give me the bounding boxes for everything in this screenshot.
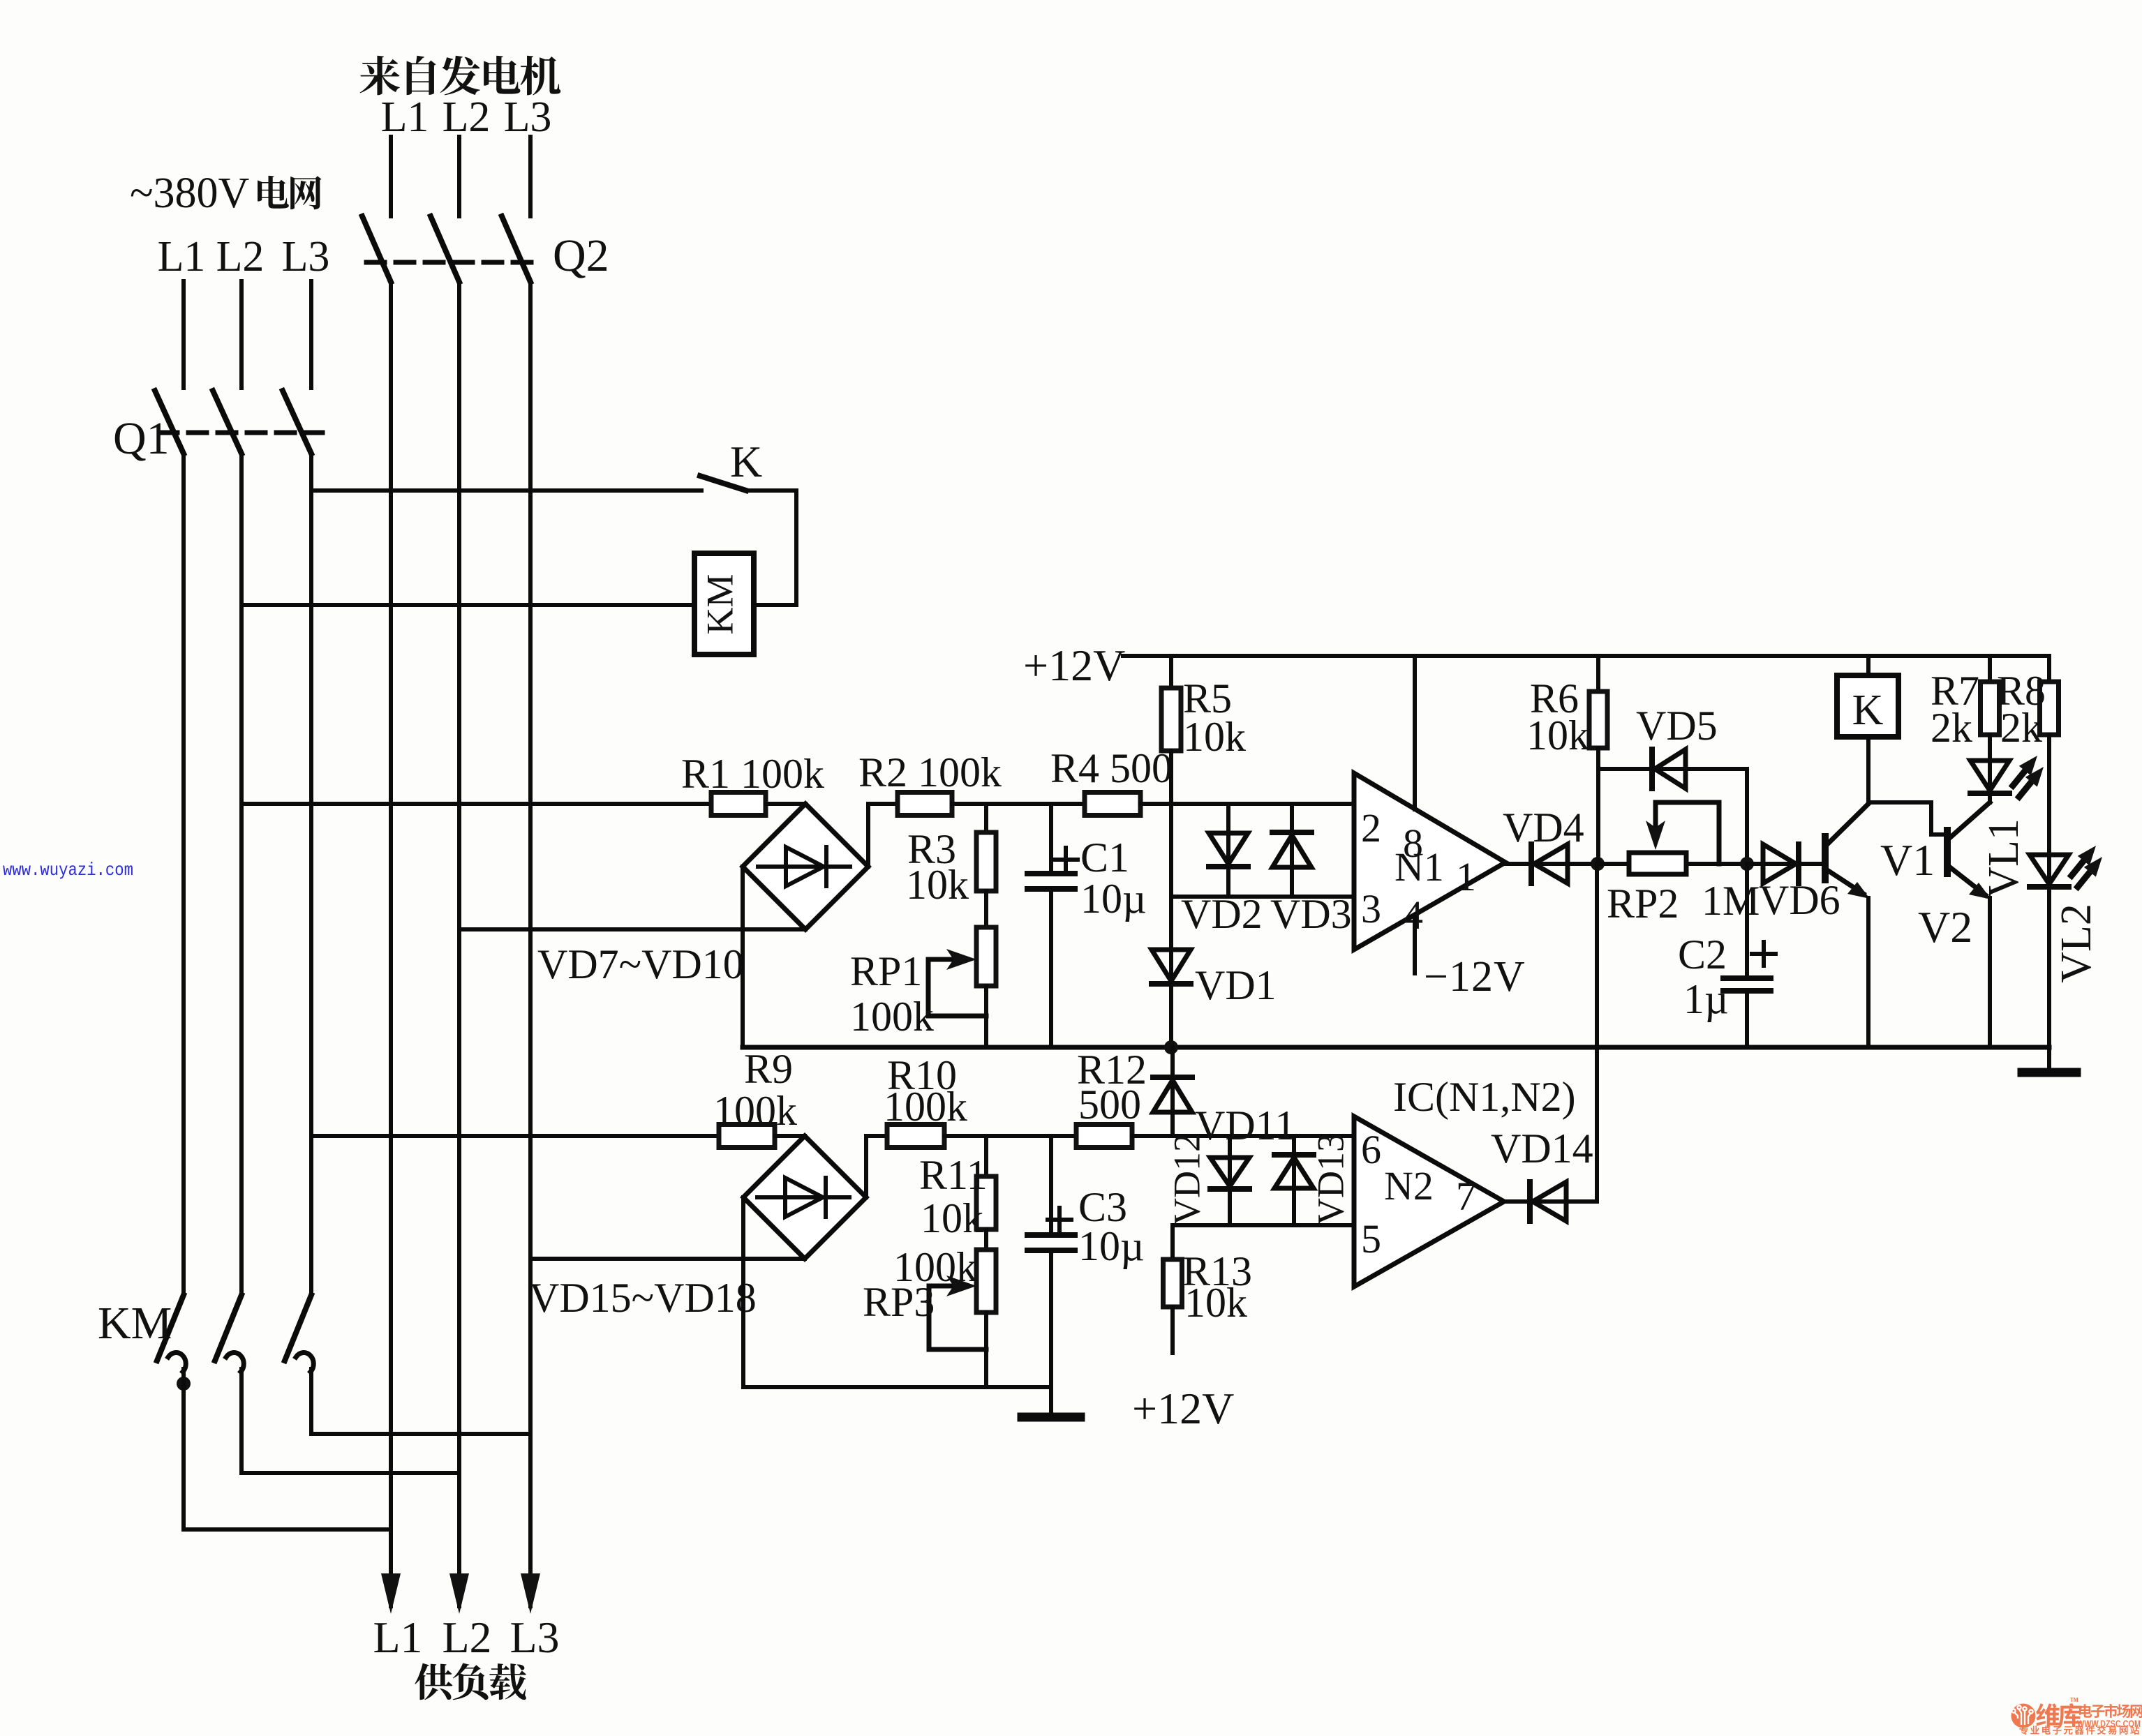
resistor R8 [2040,682,2059,735]
label R9 100k [713,1088,797,1134]
switch K label [730,437,762,486]
label VD14 [1491,1125,1593,1172]
wire R5 to node [1169,751,1173,804]
diode VD4 [1505,862,1531,866]
ground symbol lower [1022,1413,1080,1422]
label ~380V grid 电网 [130,170,322,217]
wire bridge2 right to R10 [864,1136,868,1197]
label RP1 [850,948,922,994]
relay coil K text [1852,687,1884,734]
label RP1 100k [850,994,934,1040]
contactor KM main contact 1 blade [157,1295,184,1361]
svg-text:10k: 10k [1526,712,1589,758]
label R12 [1077,1047,1147,1093]
switch Q2 blade 2 [431,216,459,282]
label +12V lower [1132,1384,1234,1433]
watermark 专业电子元器件交易网站 [2019,1726,2139,1735]
svg-text:R4 500: R4 500 [1050,745,1173,791]
svg-text:10k: 10k [1184,1280,1247,1326]
junction dot below KM contact 1 [177,1377,191,1391]
wire +12V rail [1123,654,2049,658]
wire grid L3 to switch K [311,488,701,493]
label R8 [1997,668,2046,714]
switch Q1 label [113,413,170,464]
node labels grid L1 L2 L3 [158,233,330,280]
svg-text:RP3: RP3 [863,1279,935,1325]
diode VD2 [1226,804,1230,833]
label R4 500 [1050,745,1173,791]
label V1 [1880,835,1935,885]
potentiometer RP2 wiper strap [1656,800,1719,805]
wire bridge2 left to ground [741,1197,745,1387]
bridge rectifier VD7~VD10 body [743,804,868,929]
label IC(N1,N2) [1393,1074,1576,1120]
svg-text:VD2: VD2 [1181,891,1263,937]
wire V1 collector to V2 base [1868,800,1931,805]
label R13 [1182,1248,1252,1294]
wire R1 to bridge top [766,802,805,806]
label VD4 [1503,805,1584,851]
load output arrow L2 [449,1573,469,1614]
wire rail to R5 [1169,656,1173,688]
label R2 100k [858,749,1002,795]
resistor R2 [898,793,952,816]
bridge rectifier VD15~VD18 inner diode [757,1178,849,1217]
svg-text:KM: KM [98,1298,172,1349]
wire R6 column to VD5 [1598,767,1650,771]
contactor KM main contact 3 blade [285,1295,311,1361]
wire R8 to VL2 [2047,735,2051,855]
switch Q2 linkage dashed [366,260,541,265]
label V2 [1918,902,1972,952]
svg-text:V1: V1 [1880,835,1935,885]
label R6 [1530,675,1579,721]
svg-text:TM: TM [2070,1697,2078,1703]
resistor R11 column tap [984,1136,988,1176]
svg-text:10k: 10k [921,1195,983,1241]
wire N1 pin4 to -12V [1413,915,1417,973]
potentiometer RP1 wiper arrow [928,957,967,962]
svg-text:R1 100k: R1 100k [681,751,824,797]
diode VD13 [1292,1136,1296,1158]
contactor KM label [98,1298,172,1349]
svg-text:L1: L1 [381,93,429,141]
svg-text:K: K [730,437,762,486]
svg-text:VL2: VL2 [2053,904,2100,983]
label +12V rail [1023,641,1125,690]
wire pin3 input [1171,895,1354,899]
label R7 2k [1931,705,1972,751]
svg-text:5: 5 [1361,1216,1381,1262]
ground stub lower [1049,1387,1053,1414]
diode VD3 [1290,804,1294,835]
capacitor C1 column tap [1049,804,1053,874]
load output arrow L1 [381,1573,401,1614]
svg-text:RP1: RP1 [850,948,922,994]
LED VL1 [1988,735,1992,761]
wire VD4 to node A [1568,862,1596,866]
contactor KM main contact 2 blade [215,1295,241,1361]
svg-text:R9: R9 [744,1046,793,1092]
resistor R13 tap [1170,1225,1175,1259]
label -12V [1424,953,1526,1001]
wire N2 pin5 [1173,1223,1354,1227]
wire grid L2 to R1 [241,802,711,806]
transistor V2 [1944,830,1951,874]
wire RP3 to ground wire [984,1312,988,1387]
diode VD5 [1648,767,1690,771]
svg-text:VD11: VD11 [1195,1102,1295,1148]
svg-text:N1: N1 [1394,844,1444,890]
wire gen L2 to bridge bottom [459,927,805,931]
junction dot bus VD1/VD11 [1164,1040,1178,1054]
wire rail to R6 [1596,656,1600,691]
resistor R11 [976,1176,996,1229]
svg-text:2k: 2k [2000,705,2042,751]
svg-text:VD7~VD10: VD7~VD10 [537,941,744,987]
resistor R9 [719,1125,775,1148]
label C3 10µ [1078,1223,1145,1269]
ground symbol right [2022,1068,2076,1077]
wire R2 to R4 [952,802,1085,806]
resistor R13 [1163,1259,1182,1307]
label R8 2k [2000,705,2042,751]
svg-text:Q2: Q2 [553,230,609,281]
capacitor C1 polarity + [1054,858,1078,862]
label VL2 rotated [2053,904,2100,983]
capacitor C2 polarity + [1752,952,1776,956]
wire generator L3 stub [528,137,533,216]
node labels generator L1 L2 L3 [381,93,552,141]
capacitor C3 polarity + [1048,1218,1071,1222]
contactor KM main contact 1 hook [168,1353,186,1372]
label R5 10k [1183,714,1246,760]
wire R3 to RP1 [984,891,988,927]
wire grid L3 to R9 [311,1134,719,1138]
wire grid L3 stub [309,281,313,388]
svg-text:L1: L1 [158,233,206,280]
wire L3 to load row [309,1369,313,1434]
wire C1 to bus [1049,889,1053,1047]
load output arrow L3 [521,1573,540,1614]
wire RP1 to bus [984,986,988,1047]
wire R12 to N2 pin6 [1132,1134,1354,1138]
contactor KM main contact 3 hook [296,1353,313,1372]
svg-text:100k: 100k [713,1088,797,1134]
svg-text:VD12: VD12 [1166,1133,1207,1225]
svg-text:500: 500 [1078,1082,1141,1128]
wire L1 to load row [181,1369,186,1529]
potentiometer RP2 wiper arrow [1653,802,1658,840]
label C1 10µ [1080,876,1147,922]
resistor R3 column tap [984,804,988,832]
wire grid L2 stub [239,281,244,388]
wire rail to relay K [1866,656,1870,675]
svg-text:L1: L1 [373,1612,422,1662]
wire L2 to load row [239,1369,244,1473]
wire gen L3 to bridge2 bottom [530,1257,805,1261]
svg-text:K: K [1852,687,1884,734]
svg-text:IC(N1,N2): IC(N1,N2) [1393,1074,1576,1120]
bridge rectifier VD7~VD10 inner diode [758,847,850,886]
svg-text:10µ: 10µ [1078,1223,1145,1269]
resistor R4 [1085,793,1140,816]
wire node to pin3 tap [1169,804,1173,897]
svg-text:+12V: +12V [1132,1384,1234,1433]
label VD3 [1270,891,1352,937]
resistor R6 [1589,691,1607,748]
label RP3 100k [893,1244,977,1290]
svg-text:www.wuyazi.com: www.wuyazi.com [3,860,133,881]
svg-text:VD14: VD14 [1491,1125,1593,1172]
label C1 [1080,835,1129,881]
label VD6 [1759,877,1840,923]
wire grid L1 vertical [181,454,186,1295]
svg-text:VD1: VD1 [1195,962,1277,1008]
label R10 [887,1052,957,1098]
label VD11 [1195,1102,1295,1148]
switch Q1 blade 2 [213,391,241,454]
capacitor C2 column [1745,864,1749,978]
diode VD1 [1169,897,1173,950]
svg-text:L3: L3 [510,1612,559,1662]
wire grid L2 vertical [239,454,244,1295]
wire V1 emitter to bus [1866,898,1870,1047]
label VL1 rotated [1980,818,2028,898]
label R11 10k [921,1195,983,1241]
label R6 10k [1526,712,1589,758]
svg-text:VD6: VD6 [1759,877,1840,923]
wire VD5 to node B [1686,767,1747,771]
svg-text:KM: KM [699,574,741,634]
svg-text:VD4: VD4 [1503,805,1584,851]
resistor R7 [1981,682,2000,735]
svg-text:Q1: Q1 [113,413,170,464]
wire RP2 to node B [1686,862,1747,866]
svg-text:VD5: VD5 [1636,703,1718,749]
svg-text:L2: L2 [442,93,491,141]
contactor KM main contact 2 hook [226,1353,244,1372]
svg-text:1µ: 1µ [1683,976,1729,1022]
potentiometer RP3 wiper strap [927,1286,932,1349]
svg-text:L2: L2 [442,1612,491,1662]
wire C2 to bus [1745,991,1749,1047]
svg-text:6: 6 [1361,1127,1381,1172]
wire R11 to RP3 [984,1229,988,1250]
svg-text:1M: 1M [1702,878,1760,924]
wire R13 to +12V stub [1170,1307,1175,1353]
capacitor C1 plates [1027,871,1075,876]
wire R9 to bridge2 top [775,1134,805,1138]
svg-text:L2: L2 [216,233,265,280]
op-amp N2 pin labels [1361,1127,1476,1262]
wire VL2 to bus [2047,887,2051,1047]
svg-text:R2 100k: R2 100k [858,749,1002,795]
label R12 500 [1078,1082,1141,1128]
wire main ground bus [743,1045,2049,1050]
diode VD12 [1228,1136,1232,1158]
svg-text:100k: 100k [884,1084,967,1130]
label R1 100k [681,751,824,797]
resistor R12 [1076,1125,1132,1148]
label C3 [1078,1184,1127,1230]
svg-text:1: 1 [1456,854,1476,899]
svg-text:C2: C2 [1678,931,1727,978]
resistor R10 [887,1125,944,1148]
bridge rectifier VD15~VD18 body [743,1136,866,1259]
resistor R1 [711,793,766,816]
capacitor C3 column tap [1049,1136,1053,1235]
potentiometer RP1 wiper strap [926,959,931,1016]
contactor coil KM text [699,574,741,634]
potentiometer RP1 [976,927,996,986]
switch Q2 label [553,230,609,281]
op-amp N2 triangle [1354,1116,1504,1287]
label C2 1µ [1683,976,1729,1022]
resistor R3 [976,832,996,891]
wire generator L1 vertical [389,282,393,1606]
wire switch K to corner [746,488,796,493]
wire grid L1 stub [181,281,186,388]
LED VL2 emission arrows [2072,861,2083,876]
label RP3 [863,1279,935,1325]
capacitor C2 plates [1723,975,1771,981]
watermark dzsc logo circle [2011,1704,2036,1728]
wire C3 to ground wire [1049,1250,1053,1387]
wire R6 to node A [1596,748,1600,864]
svg-text:VL1: VL1 [1980,818,2028,898]
switch Q1 blade 3 [283,391,311,454]
label RP2 [1607,881,1679,927]
switch Q1 linkage dashed [159,431,322,435]
wire R10 to R12 [944,1134,1076,1138]
wire VD14 up to node A [1566,1199,1597,1204]
svg-text:VD13: VD13 [1309,1133,1351,1225]
svg-text:C1: C1 [1080,835,1129,881]
svg-text:10k: 10k [1183,714,1246,760]
wire pin2 input [1171,802,1354,806]
resistor R5 [1161,688,1181,751]
LED VL1 emission arrows [2013,771,2025,786]
wire R4 to R5 column [1140,802,1171,806]
svg-text:V2: V2 [1918,902,1972,952]
switch Q1 blade 1 [155,391,184,454]
node B dot [1740,857,1754,871]
diode VD14 [1504,1199,1530,1204]
label R13 10k [1184,1280,1247,1326]
svg-text:−12V: −12V [1424,953,1526,1001]
label R9 [744,1046,793,1092]
svg-text:R11: R11 [919,1152,988,1198]
op-amp N1 triangle [1354,773,1505,950]
label VD15~VD18 [529,1275,757,1321]
svg-text:10k: 10k [906,862,969,908]
wire grid L2 to KM coil [241,603,694,607]
wire V2 emitter to bus [1988,898,1992,1047]
label C2 [1678,931,1727,978]
label R5 [1183,675,1232,721]
label 供负载 (to load) [415,1663,526,1700]
contactor coil KM box [694,553,754,654]
label RP2 1M [1702,878,1760,924]
svg-text:7: 7 [1456,1174,1476,1219]
LED VL2 [2047,855,2051,890]
transistor V1 [1822,837,1829,880]
op-amp N1 pin labels [1361,805,1476,938]
wire generator L2 stub [457,137,461,216]
wire bridge right to R2 level [866,804,870,867]
svg-text:10µ: 10µ [1080,876,1147,922]
label VD12 rotated [1166,1133,1207,1225]
svg-text:100k: 100k [850,994,934,1040]
diode VD6 [1747,862,1763,866]
label VD7~VD10 [537,941,744,987]
wire generator L3 vertical [528,282,533,1606]
svg-text:+12V: +12V [1023,641,1125,690]
ground stub right [2047,1047,2051,1069]
label R7 [1931,668,1979,714]
wire bridge1 left to bus [741,867,745,1047]
potentiometer RP3 [976,1250,996,1312]
svg-text:L3: L3 [504,93,552,141]
label R10 100k [884,1084,967,1130]
wire rail corner to R8 [2047,656,2051,682]
svg-text:VD15~VD18: VD15~VD18 [529,1275,757,1321]
svg-text:2k: 2k [1931,705,1972,751]
relay coil K box [1837,675,1898,737]
wire rail to R7 [1988,656,1992,682]
svg-text:RP2: RP2 [1607,881,1679,927]
switch Q2 blade 3 [502,216,530,282]
wire grid L3 vertical [309,454,313,1295]
wire N1 pin8 to +12V [1413,656,1417,809]
wire node A to RP2 [1598,862,1629,866]
switch Q2 blade 1 [362,216,391,282]
load labels L1 L2 L3 [373,1612,559,1662]
wire generator L2 vertical [457,282,461,1606]
capacitor C3 plates [1027,1232,1075,1238]
svg-text:~380V: ~380V [130,170,250,217]
wire VD1 to bus [1169,984,1173,1047]
switch K blade [700,476,746,491]
potentiometer RP3 wiper arrow [929,1284,967,1289]
svg-text:N2: N2 [1384,1163,1434,1209]
label R3 [907,826,956,872]
node A dot [1591,857,1605,871]
wire generator L1 stub [389,137,393,216]
label R11 [919,1152,988,1198]
label VD13 rotated [1309,1133,1351,1225]
svg-text:VD3: VD3 [1270,891,1352,937]
wire relay K to V1 collector [1866,737,1870,802]
label VD1 [1195,962,1277,1008]
svg-text:L3: L3 [282,233,330,280]
label R3 10k [906,862,969,908]
potentiometer RP2 [1629,853,1686,874]
watermark 维库 [2036,1703,2082,1727]
diode VD11 [1170,1047,1175,1080]
svg-text:3: 3 [1361,886,1381,931]
label: from-generator title 来自发电机 [360,56,561,96]
svg-text:2: 2 [1361,805,1381,851]
watermark 电子市场网 [2079,1704,2142,1718]
label VD2 [1181,891,1263,937]
label VD5 [1636,703,1718,749]
